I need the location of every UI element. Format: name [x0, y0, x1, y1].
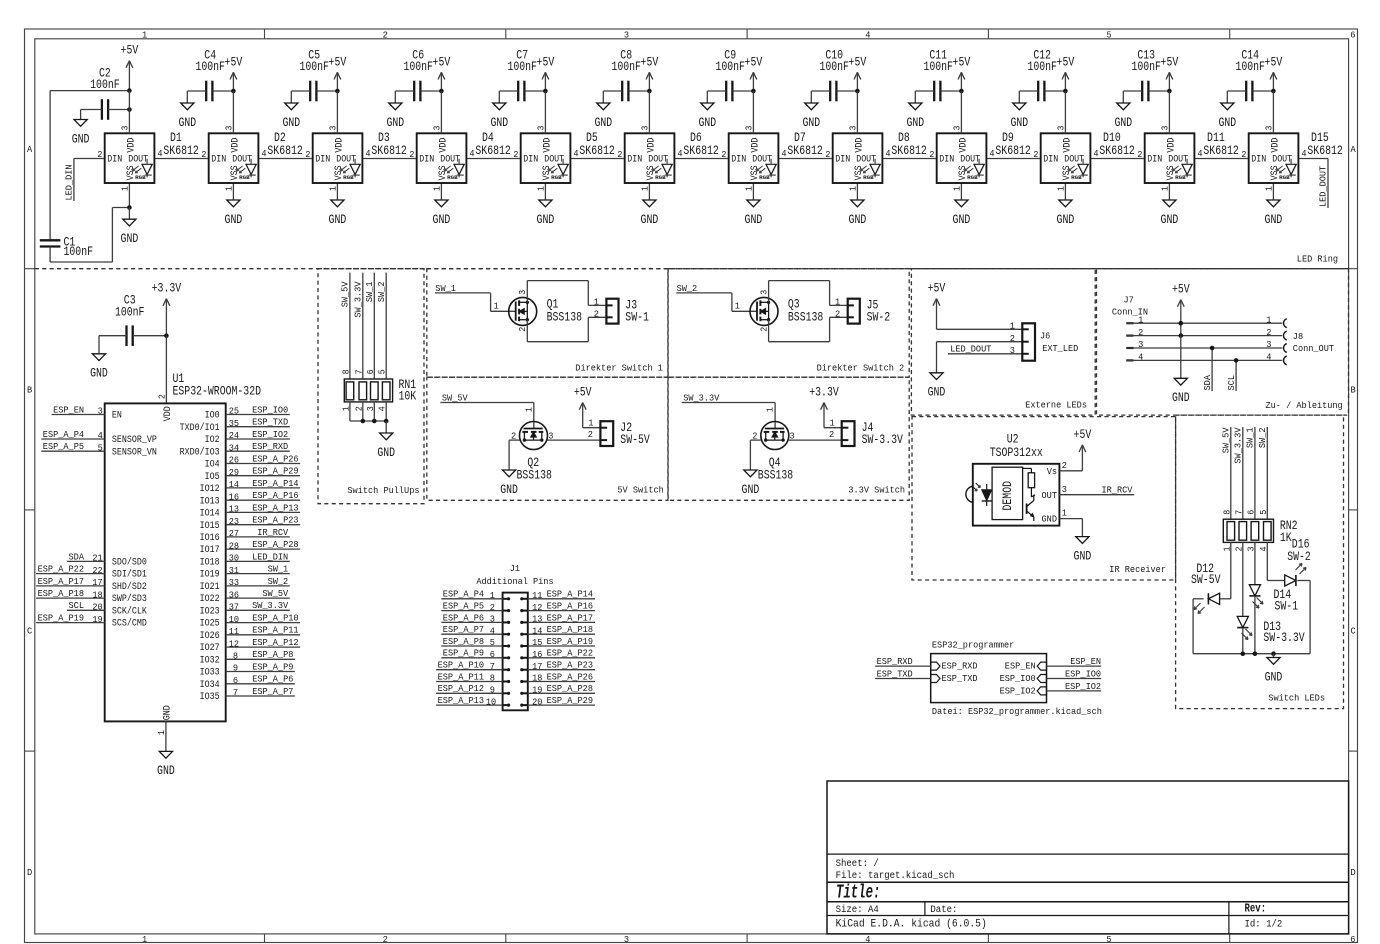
wire VSS to ground — [856, 183, 858, 200]
svg-text:21: 21 — [92, 553, 103, 564]
power +5V — [1057, 55, 1075, 91]
svg-text:10: 10 — [229, 614, 239, 625]
net label ESP_A_P16 — [226, 490, 300, 502]
svg-text:19: 19 — [532, 685, 542, 696]
svg-text:VDD: VDD — [1165, 138, 1177, 153]
svg-text:IO27: IO27 — [200, 642, 220, 654]
svg-text:VDD: VDD — [333, 138, 345, 153]
capacitor C5 — [291, 49, 337, 102]
svg-text:Date:: Date: — [930, 905, 957, 916]
LED D2 — [209, 131, 303, 183]
net label ESP_A_P26 — [226, 453, 300, 465]
svg-text:4: 4 — [157, 148, 163, 159]
ground — [953, 200, 971, 227]
svg-text:IO17: IO17 — [200, 544, 220, 556]
svg-text:28: 28 — [229, 540, 239, 551]
pin 3 — [1246, 547, 1256, 552]
svg-text:3: 3 — [849, 126, 859, 131]
net label ESP_A_P7 — [441, 624, 502, 636]
svg-text:+5V: +5V — [1057, 55, 1075, 69]
ground — [377, 421, 395, 460]
svg-text:ESP_TXD: ESP_TXD — [252, 417, 288, 428]
pin 7 — [1234, 510, 1244, 515]
svg-text:J1: J1 — [510, 563, 521, 574]
svg-text:IO26: IO26 — [200, 630, 220, 642]
svg-text:B: B — [27, 384, 33, 395]
pin 1 — [588, 417, 594, 428]
svg-text:3: 3 — [1057, 126, 1067, 131]
svg-text:DIN: DIN — [627, 153, 642, 165]
svg-text:DOUT: DOUT — [232, 153, 252, 165]
svg-text:VDD: VDD — [162, 406, 174, 421]
wire VSS to ground — [128, 183, 130, 208]
junction — [127, 205, 132, 210]
ground — [490, 91, 508, 130]
svg-text:DOUT: DOUT — [856, 153, 876, 165]
svg-text:13: 13 — [532, 614, 542, 625]
ground — [1057, 200, 1075, 227]
svg-text:DOUT: DOUT — [752, 153, 772, 165]
pin 1 — [766, 407, 776, 412]
svg-text:ESP_A_P6: ESP_A_P6 — [443, 612, 484, 623]
svg-text:25: 25 — [229, 406, 239, 417]
svg-text:IO2: IO2 — [205, 434, 220, 446]
svg-text:B: B — [1351, 384, 1357, 395]
svg-text:DIN: DIN — [731, 153, 746, 165]
wire DOUT to DIN — [362, 158, 416, 160]
svg-text:19: 19 — [92, 614, 102, 625]
sheet pin ESP_IO0 — [1000, 673, 1047, 684]
net label ESP_A_P4 — [41, 429, 104, 441]
ground — [329, 200, 347, 227]
ground — [742, 470, 760, 497]
svg-text:ESP_A_P11: ESP_A_P11 — [438, 671, 485, 682]
svg-text:GND: GND — [745, 213, 763, 227]
svg-text:SW-2: SW-2 — [1287, 550, 1311, 564]
svg-text:GND: GND — [1114, 116, 1132, 130]
svg-text:ESP_A_P23: ESP_A_P23 — [547, 660, 593, 671]
svg-text:D2: D2 — [274, 131, 286, 145]
title block text Id — [1245, 919, 1283, 931]
pin 1 — [341, 406, 351, 411]
Switch PullUps section box — [318, 269, 424, 504]
svg-text:1: 1 — [524, 407, 534, 412]
wire to ground — [1180, 336, 1182, 379]
svg-text:IO0: IO0 — [205, 410, 220, 422]
svg-text:U2: U2 — [1007, 433, 1019, 447]
svg-text:GND: GND — [178, 116, 196, 130]
svg-text:7: 7 — [490, 661, 495, 672]
wire VSS to ground — [1168, 183, 1170, 200]
svg-text:4: 4 — [1197, 148, 1203, 159]
net label SCL — [67, 600, 105, 612]
svg-text:IO35: IO35 — [200, 691, 220, 703]
pin 5 — [378, 369, 388, 374]
svg-text:GND: GND — [500, 483, 518, 497]
ground — [1114, 91, 1132, 130]
svg-text:A: A — [27, 144, 33, 155]
svg-text:SW_1: SW_1 — [268, 564, 289, 575]
svg-text:ESP_A_P18: ESP_A_P18 — [547, 624, 593, 635]
wire +5V rail to C1 — [50, 91, 129, 241]
svg-text:Datei: ESP32_programmer.kicad_: Datei: ESP32_programmer.kicad_sch — [932, 706, 1102, 717]
LED Ring section divider — [35, 254, 1349, 269]
svg-text:ESP_IO2: ESP_IO2 — [1065, 681, 1101, 692]
pin 1 — [1265, 186, 1275, 191]
svg-text:GND: GND — [282, 116, 300, 130]
pin 4 — [1093, 148, 1099, 159]
pin 3 — [953, 91, 963, 133]
title block text Title — [836, 882, 880, 904]
svg-text:SDO/SD0: SDO/SD0 — [112, 557, 147, 569]
svg-text:36: 36 — [229, 589, 239, 600]
svg-text:ESP_A_P12: ESP_A_P12 — [252, 637, 298, 648]
net label ESP_A_P17 — [528, 612, 595, 624]
svg-text:ESP_A_P7: ESP_A_P7 — [252, 686, 293, 697]
svg-text:5: 5 — [490, 637, 495, 648]
ground — [386, 91, 404, 130]
svg-text:2: 2 — [1033, 149, 1038, 160]
IC U2 TSOP312xx — [966, 433, 1060, 526]
5V Switch section box — [427, 377, 668, 500]
svg-text:SENSOR_VN: SENSOR_VN — [112, 446, 157, 458]
wire source to connector — [527, 317, 606, 341]
svg-text:100nF: 100nF — [299, 60, 329, 74]
connector J1 Additional Pins — [476, 563, 553, 710]
svg-text:13: 13 — [229, 504, 239, 515]
svg-text:2: 2 — [383, 934, 388, 944]
svg-text:DOUT: DOUT — [128, 153, 148, 165]
svg-text:3: 3 — [1161, 126, 1171, 131]
ground — [1265, 200, 1283, 227]
svg-text:1: 1 — [835, 297, 841, 308]
pin 1 — [1010, 321, 1016, 332]
svg-text:12: 12 — [532, 602, 542, 613]
pin 4 — [677, 148, 683, 159]
sheet column labels top — [142, 29, 1355, 40]
pin 2 — [721, 149, 726, 160]
LED D14 SW-1 — [1249, 542, 1298, 653]
svg-text:100nF: 100nF — [90, 78, 120, 92]
svg-text:+5V: +5V — [121, 44, 139, 58]
svg-text:DIN: DIN — [523, 153, 538, 165]
svg-text:Q1: Q1 — [547, 298, 559, 312]
svg-text:10K: 10K — [399, 389, 417, 403]
pin 2 — [829, 429, 834, 440]
svg-text:8: 8 — [490, 673, 495, 684]
wire VSS to ground — [1064, 183, 1066, 200]
svg-text:GND: GND — [1265, 670, 1283, 684]
title block text Sheet — [836, 858, 879, 870]
net label ESP_A_P4 — [441, 589, 502, 601]
svg-text:SW_5V: SW_5V — [262, 588, 288, 599]
pin 1 — [1161, 186, 1171, 191]
pin 1 — [329, 186, 339, 191]
svg-text:D8: D8 — [898, 131, 910, 145]
svg-text:SW_3.3V: SW_3.3V — [683, 392, 719, 403]
svg-text:GND: GND — [433, 213, 451, 227]
pin 3 — [1265, 91, 1275, 133]
svg-text:SK6812: SK6812 — [579, 144, 614, 158]
net label ESP_TXD — [875, 668, 931, 679]
sheet row labels — [27, 144, 1356, 878]
svg-text:ESP_A_P8: ESP_A_P8 — [252, 649, 293, 660]
svg-text:1: 1 — [641, 186, 651, 191]
svg-text:BSS138: BSS138 — [547, 311, 582, 325]
pin 8 — [1222, 510, 1232, 515]
svg-text:ESP_A_P18: ESP_A_P18 — [38, 588, 84, 599]
svg-text:VDD: VDD — [853, 138, 865, 153]
svg-text:RGB: RGB — [759, 175, 770, 181]
svg-text:D5: D5 — [586, 131, 598, 145]
svg-text:DOUT: DOUT — [440, 153, 460, 165]
pin 2 — [835, 308, 840, 319]
wire VSS to ground — [232, 183, 234, 200]
junction — [543, 89, 548, 94]
svg-text:RGB: RGB — [343, 175, 354, 181]
svg-text:GND: GND — [162, 705, 174, 720]
power +5V — [745, 55, 763, 91]
svg-text:1: 1 — [1161, 186, 1171, 191]
svg-text:GND: GND — [1172, 391, 1190, 405]
svg-text:+5V: +5V — [574, 386, 592, 400]
svg-text:+5V: +5V — [1172, 283, 1190, 297]
svg-text:3: 3 — [1265, 126, 1275, 131]
svg-text:SW_2: SW_2 — [677, 283, 698, 294]
svg-text:Direkter Switch 1: Direkter Switch 1 — [575, 363, 663, 374]
svg-text:SW-3.3V: SW-3.3V — [862, 433, 904, 447]
net label LED_DIN — [226, 551, 290, 563]
pin 1 — [524, 407, 534, 412]
connector J5 SW-2 — [848, 299, 890, 325]
svg-text:8: 8 — [341, 369, 351, 374]
svg-text:ESP_IO2: ESP_IO2 — [252, 429, 288, 440]
net label ESP_A_P17 — [36, 576, 105, 588]
svg-text:D: D — [1351, 867, 1357, 878]
net label ESP_A_P13 — [436, 695, 503, 707]
svg-text:3: 3 — [759, 290, 769, 295]
wire DOUT to DIN — [466, 158, 520, 160]
svg-text:SW_1: SW_1 — [1245, 427, 1256, 448]
net label SW_3.3V — [682, 392, 775, 403]
svg-text:EXT_LED: EXT_LED — [1042, 343, 1078, 354]
svg-text:ESP_A_P26: ESP_A_P26 — [252, 453, 298, 464]
wire DOUT to DIN — [154, 158, 208, 160]
svg-text:10: 10 — [486, 696, 496, 707]
svg-text:J8: J8 — [1293, 331, 1303, 342]
svg-text:+5V: +5V — [1161, 55, 1179, 69]
svg-text:IR_RCV: IR_RCV — [1102, 484, 1133, 495]
pin 1 — [849, 186, 859, 191]
net label ESP_A_P18 — [528, 624, 595, 636]
pin 4 — [1197, 148, 1203, 159]
svg-text:2: 2 — [1062, 460, 1067, 471]
svg-text:3: 3 — [121, 126, 131, 131]
svg-text:DOUT: DOUT — [336, 153, 356, 165]
svg-text:GND: GND — [1265, 213, 1283, 227]
svg-text:17: 17 — [92, 577, 102, 588]
capacitor C12 — [1019, 49, 1065, 102]
pin 2 — [594, 308, 599, 319]
ground — [1265, 654, 1283, 685]
net label SW_2 — [226, 576, 290, 588]
pin 2 — [97, 149, 102, 160]
svg-text:ESP_A_P7: ESP_A_P7 — [443, 624, 484, 635]
svg-text:ESP_IO2: ESP_IO2 — [1000, 686, 1036, 697]
svg-text:31: 31 — [229, 565, 240, 576]
svg-text:+5V: +5V — [329, 55, 347, 69]
pin 2 — [1137, 149, 1142, 160]
pin 2 — [409, 149, 414, 160]
svg-text:4: 4 — [573, 148, 579, 159]
svg-text:LED Ring: LED Ring — [1297, 254, 1338, 265]
hierarchical sheet ESP32_programmer — [931, 640, 1102, 717]
svg-text:DIN: DIN — [835, 153, 850, 165]
Direkter Switch 1 section box — [427, 269, 668, 378]
svg-text:3: 3 — [433, 126, 443, 131]
svg-text:SW_1: SW_1 — [364, 281, 375, 302]
svg-text:SW_2: SW_2 — [268, 576, 289, 587]
wire DOUT to DIN — [882, 158, 936, 160]
svg-text:2: 2 — [594, 308, 599, 319]
net label LED_DOUT — [1298, 159, 1328, 209]
svg-text:VDD: VDD — [645, 138, 657, 153]
pin 1 — [225, 186, 235, 191]
pin 2 — [513, 149, 518, 160]
pin 1 — [1222, 547, 1232, 552]
svg-text:24: 24 — [229, 430, 240, 441]
svg-text:GND: GND — [121, 232, 139, 246]
net label SW_3.3V (vertical) — [352, 273, 363, 379]
svg-text:2: 2 — [835, 308, 840, 319]
svg-text:IO5: IO5 — [205, 471, 220, 483]
svg-text:GND: GND — [157, 764, 175, 778]
svg-text:ESP_A_P19: ESP_A_P19 — [547, 636, 593, 647]
wire DOUT to DIN — [778, 158, 832, 160]
svg-text:IO21: IO21 — [200, 581, 220, 593]
svg-text:4: 4 — [365, 148, 371, 159]
svg-text:GND: GND — [742, 483, 760, 497]
svg-text:IR Receiver: IR Receiver — [1109, 564, 1166, 575]
svg-text:IO25: IO25 — [200, 618, 220, 630]
svg-text:ESP_A_P4: ESP_A_P4 — [43, 429, 85, 440]
capacitor C13 — [1123, 49, 1169, 102]
junction — [384, 419, 389, 424]
svg-text:SK6812: SK6812 — [995, 144, 1030, 158]
net label ESP_A_P13 — [226, 502, 300, 514]
svg-text:ESP_RXD: ESP_RXD — [877, 656, 913, 667]
svg-text:SK6812: SK6812 — [1203, 144, 1238, 158]
pin 4 — [781, 148, 787, 159]
pin 2 — [1062, 460, 1067, 471]
svg-text:11: 11 — [229, 626, 240, 637]
svg-text:2: 2 — [518, 327, 528, 332]
svg-text:IO4: IO4 — [205, 459, 220, 471]
svg-text:1: 1 — [953, 186, 963, 191]
svg-text:1: 1 — [766, 407, 776, 412]
svg-text:ESP_A_P10: ESP_A_P10 — [252, 613, 298, 624]
pin 3 — [790, 430, 795, 441]
svg-text:3: 3 — [225, 126, 235, 131]
svg-text:3: 3 — [624, 29, 629, 40]
pin 6 — [366, 369, 376, 374]
svg-text:Switch PullUps: Switch PullUps — [347, 485, 419, 496]
pin 2 — [305, 149, 310, 160]
svg-text:1: 1 — [830, 417, 836, 428]
svg-text:D11: D11 — [1207, 131, 1225, 145]
transistor Q3 BSS138 — [750, 297, 823, 325]
svg-text:ESP_A_P13: ESP_A_P13 — [438, 695, 484, 706]
net label ESP_A_P5 — [441, 601, 502, 613]
svg-text:GND: GND — [594, 116, 612, 130]
net label ESP_A_P28 — [528, 683, 595, 695]
junction — [1253, 651, 1258, 656]
net label ESP_IO2 — [1047, 681, 1102, 692]
svg-text:ESP_A_P22: ESP_A_P22 — [38, 564, 84, 575]
wire pin2 to ground — [937, 342, 1023, 373]
svg-text:BSS138: BSS138 — [758, 469, 793, 483]
svg-text:BSS138: BSS138 — [788, 311, 823, 325]
svg-text:IO32: IO32 — [200, 654, 220, 666]
svg-text:IO22: IO22 — [200, 593, 220, 605]
svg-text:Vs: Vs — [1047, 466, 1057, 477]
svg-text:1: 1 — [225, 186, 235, 191]
pin 4 — [885, 148, 891, 159]
power +5V — [121, 44, 139, 91]
sheet pin ESP_RXD — [931, 661, 978, 672]
LED D16 SW-2 — [1267, 537, 1310, 653]
svg-text:1: 1 — [735, 301, 741, 312]
ground — [282, 91, 300, 130]
ground — [594, 91, 612, 130]
svg-text:2: 2 — [1266, 327, 1271, 338]
svg-text:C: C — [1351, 626, 1357, 637]
ground — [72, 110, 90, 147]
junction — [231, 89, 236, 94]
net label ESP_A_P9 — [441, 648, 502, 660]
svg-text:LED_DOUT: LED_DOUT — [1318, 165, 1329, 207]
svg-text:ESP_A_P4: ESP_A_P4 — [443, 589, 485, 600]
svg-text:4: 4 — [98, 430, 104, 441]
net label SW_2 — [676, 283, 757, 312]
svg-text:RGB: RGB — [1071, 175, 1082, 181]
svg-text:VDD: VDD — [125, 138, 137, 153]
svg-text:ESP_A_P14: ESP_A_P14 — [252, 478, 299, 489]
junction — [1241, 651, 1246, 656]
svg-text:+5V: +5V — [953, 55, 971, 69]
svg-text:DOUT: DOUT — [1064, 153, 1084, 165]
svg-text:Additional Pins: Additional Pins — [476, 576, 553, 587]
pin 3 — [759, 290, 769, 295]
net label ESP_A_P7 — [226, 686, 295, 698]
svg-text:DOUT: DOUT — [1272, 153, 1292, 165]
ground — [928, 373, 946, 400]
junction — [127, 107, 132, 112]
svg-text:SW_5V: SW_5V — [340, 281, 351, 307]
svg-text:3: 3 — [1010, 345, 1015, 356]
svg-text:TSOP312xx: TSOP312xx — [990, 446, 1043, 460]
junction — [959, 89, 964, 94]
pin 1 — [1057, 186, 1067, 191]
net label SW_2 (vertical) — [376, 273, 387, 379]
net label ESP_A_P14 — [528, 589, 595, 601]
svg-text:SW-5V: SW-5V — [620, 433, 650, 447]
ground — [537, 200, 555, 227]
svg-text:14: 14 — [229, 479, 240, 490]
svg-text:ESP_A_P29: ESP_A_P29 — [547, 695, 593, 706]
wire — [1126, 335, 1282, 337]
capacitor C2 — [81, 67, 130, 120]
